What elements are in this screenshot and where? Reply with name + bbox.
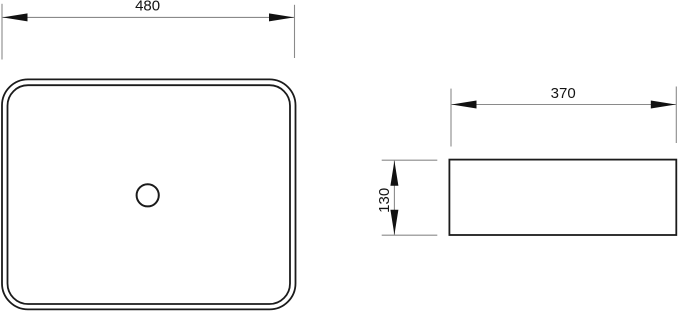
dimension 130: dimension line	[393, 160, 395, 235]
dimension 130: bottom extension line	[382, 234, 438, 236]
dimension 480: value label	[135, 0, 160, 15]
basin inner rim (top view)	[8, 85, 291, 304]
svg-text:370: 370	[551, 85, 576, 102]
dimension 130: top arrowhead	[390, 161, 398, 186]
basin outer rim (top view)	[2, 79, 296, 309]
svg-text:480: 480	[135, 0, 160, 15]
dimension 370: left arrowhead	[452, 101, 477, 109]
dimension 480: left arrowhead	[3, 13, 28, 21]
dimension 130: top extension line	[382, 159, 438, 161]
dimension 480: left extension line	[1, 4, 3, 60]
dimension 370: value label	[551, 85, 576, 102]
dimension 480: right extension line	[294, 5, 296, 58]
dimension 370: left extension line	[450, 89, 452, 147]
dimension 370: right arrowhead	[651, 101, 676, 109]
svg-text:130: 130	[376, 188, 393, 213]
dimension 370: dimension line	[451, 104, 676, 106]
drain hole	[137, 184, 159, 206]
dimension 480: right arrowhead	[269, 13, 294, 21]
dimension 370: right extension line	[675, 87, 677, 144]
dimension 480: dimension line	[2, 16, 295, 18]
dimension 130: bottom arrowhead	[390, 210, 398, 235]
dimension 130: value label	[376, 188, 393, 213]
side view body	[449, 160, 676, 235]
